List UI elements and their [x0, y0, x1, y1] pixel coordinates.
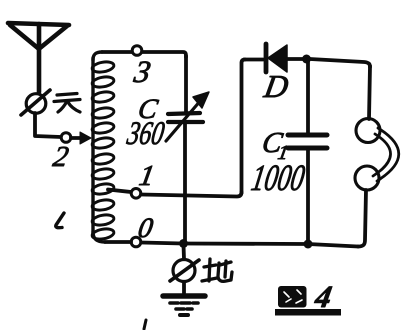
variable capacitor arrow: [166, 100, 201, 141]
variable capacitor C plates: [168, 113, 200, 114]
earphone top cup: [356, 119, 380, 143]
ground branch: [182, 245, 186, 259]
junction dot bottom right: [304, 240, 313, 249]
label 1000: [248, 158, 307, 199]
wire junction to earphone corner: [310, 59, 370, 67]
diode D triangle: [268, 45, 287, 72]
diode branch vertical: [242, 60, 246, 194]
junction dot top: [302, 55, 311, 64]
earth symbol: [163, 293, 205, 299]
tap 0 terminal: [131, 237, 141, 247]
diode D cathode bar: [264, 44, 269, 72]
bottom rail: [141, 243, 358, 247]
label 天: [54, 94, 80, 113]
wire to diode: [244, 58, 263, 62]
wire node2 to coil tap: [71, 136, 84, 140]
C1 plates: [288, 133, 327, 138]
antenna: [8, 23, 69, 92]
earphone branch top: [369, 66, 370, 119]
svg-text:4: 4: [312, 279, 335, 314]
svg-text:2: 2: [51, 141, 71, 173]
earphone bottom cup: [355, 166, 379, 190]
label C: [136, 94, 161, 125]
C1 branch: [306, 59, 310, 133]
svg-text:0: 0: [136, 213, 155, 244]
figure label 图4: [275, 279, 341, 315]
svg-text:1000: 1000: [248, 158, 307, 199]
label L: [56, 213, 64, 228]
coil L loops: [91, 60, 114, 240]
terminal TIAN (antenna binding post): [21, 90, 50, 115]
wire to earth: [182, 282, 186, 293]
stray mark bottom left: [144, 320, 146, 329]
svg-text:360: 360: [124, 115, 167, 152]
tap 1 terminal: [131, 189, 141, 199]
label D: [261, 68, 291, 104]
top wire (tap 3 row): [102, 52, 186, 57]
tap 1 wire: [108, 190, 131, 193]
svg-text:3: 3: [131, 54, 154, 89]
label C1: [260, 127, 285, 159]
right vertical (variable capacitor branch): [184, 56, 188, 112]
svg-text:1: 1: [137, 160, 157, 192]
node 2 terminal: [61, 133, 71, 143]
junction dot bottom left: [179, 239, 188, 248]
ground terminal DI (binding post): [173, 260, 195, 282]
wire antenna to node 2: [35, 113, 61, 137]
label 2: [51, 141, 71, 173]
earphone branch bottom: [358, 190, 366, 247]
label 0: [136, 213, 155, 244]
wire diode to junction: [287, 57, 304, 61]
earphone band: [377, 128, 399, 181]
tap arrow on coil: [80, 132, 91, 144]
coil L spine: [93, 52, 102, 60]
label 3: [131, 54, 154, 89]
tap 3 terminal: [132, 46, 142, 56]
label 360: [124, 115, 167, 152]
label 地: [202, 259, 232, 281]
label 1: [137, 160, 157, 192]
